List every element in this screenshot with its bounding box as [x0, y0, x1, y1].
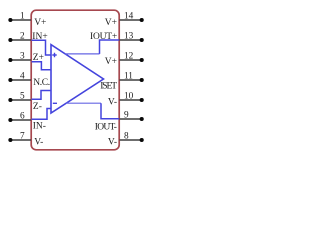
wire IN- (pin6 to - input) [32, 109, 52, 120]
pin 13 lead [119, 39, 141, 41]
pin 3 terminal dot [8, 58, 12, 62]
svg-text:V-: V- [34, 138, 43, 148]
pin 4 terminal dot [8, 78, 12, 82]
wire IOUT+ tap from upper hypotenuse [65, 53, 99, 55]
wire IOUT- (to pin 9) [101, 103, 119, 119]
pin 1 terminal dot [8, 18, 12, 22]
pin 7 lead [11, 139, 32, 141]
pin 2 terminal dot [8, 38, 12, 42]
IC body U1 (14-pin package outline) [31, 10, 119, 150]
pin 10 lead [119, 99, 141, 101]
svg-text:V-: V- [108, 97, 117, 107]
svg-text:IN-: IN- [33, 122, 46, 132]
pin 7 terminal dot [8, 138, 12, 142]
svg-text:4: 4 [20, 72, 25, 82]
pin 6 terminal dot [8, 118, 12, 122]
pin 6 lead [11, 119, 32, 121]
svg-text:12: 12 [124, 52, 134, 62]
wire IOUT+ (to pin 13) [100, 40, 120, 54]
op-amp U1 triangle [51, 45, 104, 113]
pin 3 lead [11, 59, 32, 61]
pin 4 lead [11, 79, 32, 81]
svg-text:9: 9 [124, 111, 129, 121]
pin 14 lead [119, 19, 141, 21]
pin 9 lead [119, 118, 141, 120]
svg-text:13: 13 [124, 32, 134, 42]
svg-text:6: 6 [20, 112, 25, 122]
pin 8 terminal dot [140, 138, 144, 142]
svg-text:8: 8 [124, 132, 129, 142]
svg-text:1: 1 [20, 12, 25, 22]
svg-text:V+: V+ [105, 18, 117, 28]
pin 10 terminal dot [140, 98, 144, 102]
wire IN+ (pin2 to + input) [32, 40, 52, 55]
pin 1 lead [11, 19, 32, 21]
pin 8 lead [119, 139, 141, 141]
pin 9 terminal dot [140, 117, 144, 121]
wire IOUT- tap from lower hypotenuse [66, 102, 101, 104]
pin 13 terminal dot [140, 38, 144, 42]
pin 5 terminal dot [8, 98, 12, 102]
wire Z+ (pin3 to triangle) [32, 62, 52, 70]
wire Z- (pin5 to triangle) [32, 91, 52, 100]
pin 12 lead [119, 59, 141, 61]
svg-text:ISET: ISET [100, 82, 117, 92]
op-amp inverting input marker - [53, 102, 57, 104]
svg-text:11: 11 [124, 72, 133, 82]
svg-text:5: 5 [20, 92, 25, 102]
svg-text:14: 14 [124, 12, 134, 22]
svg-text:N.C.: N.C. [33, 78, 50, 88]
svg-text:3: 3 [20, 52, 25, 62]
svg-text:2: 2 [20, 32, 25, 42]
svg-text:IOUT-: IOUT- [95, 123, 117, 133]
op-amp noninverting input marker + [52, 53, 56, 57]
pin 5 lead [11, 99, 32, 101]
svg-text:Z-: Z- [33, 102, 42, 112]
svg-text:V-: V- [108, 137, 117, 147]
svg-text:V+: V+ [34, 18, 46, 28]
pin 12 terminal dot [140, 58, 144, 62]
pin 11 terminal dot [140, 78, 144, 82]
svg-text:V+: V+ [105, 57, 117, 67]
svg-text:7: 7 [20, 132, 25, 142]
pin 14 terminal dot [140, 18, 144, 22]
svg-text:10: 10 [124, 92, 134, 102]
pin 2 lead [11, 39, 32, 41]
pin 11 lead [119, 79, 141, 81]
